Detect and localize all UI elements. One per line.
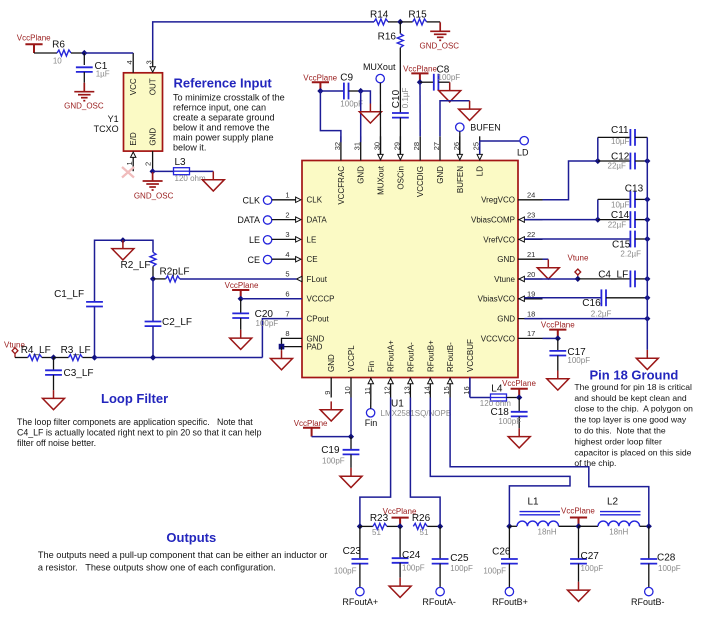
wire L3 to ground <box>190 170 214 172</box>
svg-text:10µF: 10µF <box>611 200 630 209</box>
pin 32 VCCFRAC <box>333 136 342 160</box>
wire pin 14 RFoutB+ routing <box>430 398 570 527</box>
svg-text:100pF: 100pF <box>322 457 345 466</box>
ground triangle (C9/pin31) <box>359 104 381 124</box>
resistor R15 <box>400 10 427 25</box>
pin 5 FLout <box>285 270 301 282</box>
wire pin 16 to L4 <box>470 378 491 398</box>
ground GND_OSC (Y1 pin2) <box>134 172 174 200</box>
op-amp U1 LMX2581 IC body <box>302 161 518 378</box>
svg-text:Fin: Fin <box>367 361 376 372</box>
svg-text:GND: GND <box>497 315 515 324</box>
capacitor C24 <box>392 526 425 577</box>
svg-text:C26: C26 <box>492 547 511 558</box>
power symbol VccPlane (C8) <box>403 64 437 82</box>
wire pin 12 RFoutA+ routing <box>360 398 391 527</box>
node junction C13/C14 bracket <box>595 217 601 223</box>
svg-text:C23: C23 <box>343 546 362 557</box>
node junction VccPlane/C8/pin28 <box>417 79 423 85</box>
pin 23 VbiasCOMP <box>518 210 543 222</box>
capacitor C25 <box>432 526 473 587</box>
svg-text:C13: C13 <box>625 184 644 195</box>
port CLK <box>242 195 271 205</box>
port MUXout <box>363 62 396 83</box>
svg-text:of the chip.: of the chip. <box>574 458 616 468</box>
resistor R14 <box>370 10 389 25</box>
svg-text:and should be kept clean and: and should be kept clean and <box>574 393 687 403</box>
svg-text:1: 1 <box>285 191 289 200</box>
resistor R2_LF <box>120 252 156 271</box>
power symbol VccPlane (C20) <box>225 281 259 299</box>
svg-text:capacitor is placed on this si: capacitor is placed on this side <box>574 447 691 457</box>
node junction C9/pin31 <box>358 88 364 94</box>
power symbol VccPlane (L1/L2) <box>561 506 595 526</box>
wire pin 17 to junction <box>543 337 558 339</box>
ground triangle (C24) <box>389 578 411 598</box>
pin 19 VbiasVCO <box>518 290 543 302</box>
svg-text:18nH: 18nH <box>538 528 557 537</box>
svg-text:The loop filter componets are: The loop filter componets are applicatio… <box>17 417 253 427</box>
svg-text:C1_LF: C1_LF <box>54 289 84 300</box>
power symbol Vtune <box>568 253 589 279</box>
node junction pin10/C19 <box>348 434 354 440</box>
ground triangle (L3) <box>202 171 224 191</box>
capacitor C1_LF <box>54 289 103 358</box>
capacitor C27 <box>570 526 603 582</box>
svg-text:to do this. Note that the: to do this. Note that the <box>574 426 665 436</box>
wire R2pLF to pin 5 FLout <box>180 278 297 280</box>
wire pin 21 GND to ground <box>543 258 549 260</box>
svg-text:VccPlane: VccPlane <box>303 73 337 82</box>
svg-text:RFoutA-: RFoutA- <box>406 342 415 372</box>
pin 12 RFoutA+ <box>383 378 394 398</box>
pin 29 OSCin <box>392 136 403 160</box>
pin 13 RFoutA- <box>402 378 413 398</box>
svg-text:2.2µF: 2.2µF <box>620 249 641 258</box>
svg-text:20: 20 <box>527 270 535 279</box>
port DATA <box>237 215 271 225</box>
svg-text:VccPlane: VccPlane <box>541 321 575 330</box>
svg-text:22µF: 22µF <box>608 221 627 230</box>
Y1 pin 4 VCC <box>125 53 134 73</box>
svg-text:OUT: OUT <box>149 78 158 95</box>
svg-text:BUFEN: BUFEN <box>456 166 465 193</box>
node junction RFoutA+/R23/C23 <box>357 523 363 529</box>
wire junction to Y1 pin 4 <box>84 52 133 54</box>
wire VccPlane to junction <box>312 436 351 438</box>
pin 4 CE <box>285 250 301 262</box>
svg-text:RFoutB+: RFoutB+ <box>426 340 435 372</box>
port LE <box>249 235 272 245</box>
wire pin 10 VCCPL down <box>350 398 352 437</box>
wire pin 24 VregVCO to C11/C12 <box>543 161 598 200</box>
svg-text:C19: C19 <box>321 445 340 456</box>
node junction Vtune/C4_LF <box>575 276 581 282</box>
svg-text:C11: C11 <box>611 125 629 136</box>
svg-text:FLout: FLout <box>307 275 328 284</box>
node junction R14/R15/R16 <box>397 19 403 25</box>
svg-text:To minimize crosstalk of the: To minimize crosstalk of the <box>173 92 285 102</box>
wire junction to pin 6 VCCCP <box>241 298 302 300</box>
pin 15 RFoutB- <box>442 378 453 398</box>
pin 21 GND <box>518 250 543 259</box>
ground triangle (loop filter top) <box>112 240 134 260</box>
svg-text:GND: GND <box>357 166 366 184</box>
svg-text:100pF: 100pF <box>450 564 473 573</box>
Y1 pin 1 E/D no-connect <box>122 152 136 178</box>
wire Y1 OUT to R14 <box>153 22 374 60</box>
node junction PAD (square) <box>279 344 285 350</box>
svg-text:a resistor. These outputs sh: a resistor. These outputs show one of ea… <box>38 563 276 573</box>
svg-text:C2_LF: C2_LF <box>162 317 192 328</box>
ground triangle (C3_LF) <box>43 390 65 410</box>
node junction VccPlane/C9 <box>317 88 323 94</box>
node junction bus/C15 <box>644 236 650 242</box>
heading Reference Input <box>174 76 273 91</box>
svg-text:U1: U1 <box>391 399 404 410</box>
svg-text:VccPlane: VccPlane <box>403 64 437 73</box>
svg-text:23: 23 <box>527 210 535 219</box>
node junction bus/C4_LF <box>644 276 650 282</box>
capacitor C16 with wire from pin 19 <box>524 289 647 318</box>
svg-text:close to the chip. A polygon: close to the chip. A polygon on <box>574 404 693 414</box>
svg-text:TCXO: TCXO <box>94 124 119 134</box>
svg-text:R6: R6 <box>52 40 65 51</box>
svg-text:DATA: DATA <box>307 216 328 225</box>
svg-text:VccPlane: VccPlane <box>225 281 259 290</box>
svg-text:0.1µF: 0.1µF <box>401 87 410 108</box>
inductor L2 <box>579 496 649 536</box>
ground GND_OSC (C1) <box>64 83 104 111</box>
svg-text:100pF: 100pF <box>658 564 681 573</box>
svg-text:GND: GND <box>436 166 445 184</box>
svg-text:24: 24 <box>527 191 535 200</box>
Y1 pin 2 GND <box>144 151 153 171</box>
wire pin 11 to Fin <box>370 398 372 409</box>
svg-text:refernce input, one can: refernce input, one can <box>173 102 266 112</box>
pin 30 MUXout <box>373 136 384 160</box>
port RFoutA+ <box>342 587 378 607</box>
wire bracket C11 <box>597 137 599 161</box>
wire power to R6 <box>34 52 57 54</box>
svg-text:17: 17 <box>527 329 535 338</box>
pin 6 VCCCP <box>285 290 289 299</box>
wire pin 18 GND to bus <box>524 318 647 320</box>
ground triangle (pin 27) <box>459 101 481 121</box>
note text loop filter <box>17 417 262 448</box>
capacitor C26 <box>483 526 517 587</box>
svg-text:VccPlane: VccPlane <box>17 34 51 43</box>
port RFoutB- <box>631 587 665 607</box>
svg-text:7: 7 <box>285 309 289 318</box>
svg-text:C28: C28 <box>657 552 676 563</box>
heading Loop Filter <box>101 391 168 406</box>
svg-text:Y1: Y1 <box>108 114 119 124</box>
pin 22 VrefVCO <box>518 230 543 242</box>
svg-text:18: 18 <box>527 309 535 318</box>
wire VccPlane junction to pin 32 <box>320 91 341 142</box>
svg-text:3: 3 <box>285 230 289 239</box>
svg-text:the top layer is one good way: the top layer is one good way <box>574 415 686 425</box>
svg-text:R26: R26 <box>412 513 431 524</box>
svg-text:The outputs need a pull-up com: The outputs need a pull-up component tha… <box>38 550 328 560</box>
heading Pin 18 Ground <box>590 368 679 383</box>
node junction C11/C12 bracket <box>595 158 601 164</box>
TCXO Y1 body <box>124 73 163 151</box>
wire R3_LF to junction <box>83 357 95 359</box>
svg-text:C27: C27 <box>581 551 600 562</box>
node junction R6/C1 <box>81 50 87 56</box>
capacitor C20 <box>232 299 278 330</box>
capacitor C4_LF <box>578 269 648 287</box>
wire LE to pin <box>272 238 296 240</box>
svg-text:22µF: 22µF <box>608 161 627 170</box>
port LD <box>517 137 529 158</box>
svg-text:R14: R14 <box>370 10 389 21</box>
svg-text:C4_LF is actually located righ: C4_LF is actually located right next to … <box>17 428 262 438</box>
svg-text:10: 10 <box>53 57 62 66</box>
svg-text:VrefVCO: VrefVCO <box>483 235 515 244</box>
svg-text:MUXout: MUXout <box>363 62 396 72</box>
capacitor C15 with wire from pin 22 <box>524 231 647 259</box>
node junction bus/C14 <box>644 217 650 223</box>
pin 9 GND <box>323 378 332 398</box>
svg-text:VCC: VCC <box>129 78 138 95</box>
node junction bus/C13 <box>644 196 650 202</box>
power symbol VccPlane (top-left) <box>17 34 51 53</box>
node junction VccPlane/C27 <box>575 523 581 529</box>
pin 10 VCCPL <box>343 378 352 398</box>
pin 27 GND <box>432 136 441 160</box>
svg-text:GND_OSC: GND_OSC <box>134 191 174 200</box>
pin 24 VregVCO <box>518 191 543 200</box>
svg-text:R15: R15 <box>408 10 427 21</box>
svg-text:CLK: CLK <box>307 196 323 205</box>
pin 14 RFoutB+ <box>422 378 433 398</box>
pin 28 VCCDIG <box>412 136 421 160</box>
wire pin 13 RFoutA- routing <box>410 398 440 527</box>
svg-text:create a separate ground: create a separate ground <box>173 112 275 122</box>
port BUFEN <box>456 123 501 133</box>
svg-text:5: 5 <box>285 270 289 279</box>
power symbol VccPlane (C19) <box>294 419 328 437</box>
pin 11 Fin <box>363 378 374 398</box>
svg-text:CE: CE <box>307 255 318 264</box>
svg-text:RFoutB+: RFoutB+ <box>492 597 528 607</box>
svg-text:21: 21 <box>527 250 535 259</box>
svg-text:L2: L2 <box>607 496 619 507</box>
wire PAD to ground <box>281 347 283 351</box>
svg-text:100pF: 100pF <box>498 417 521 426</box>
ground triangle (C27) <box>568 582 590 602</box>
ground triangle (PAD) <box>271 350 293 370</box>
svg-text:8: 8 <box>285 329 289 338</box>
svg-text:Vtune: Vtune <box>568 253 589 262</box>
svg-text:GND: GND <box>497 255 515 264</box>
capacitor C10 <box>391 87 410 117</box>
node junction C3_LF <box>50 354 56 360</box>
svg-text:L3: L3 <box>175 157 187 168</box>
note text outputs <box>38 550 328 572</box>
svg-text:below it and remove the: below it and remove the <box>173 122 270 132</box>
node junction bus/C12 <box>644 158 650 164</box>
svg-text:MUXout: MUXout <box>377 165 386 195</box>
capacitor C18 <box>491 398 528 429</box>
capacitor C17 <box>549 338 590 370</box>
svg-text:BUFEN: BUFEN <box>470 123 501 133</box>
svg-text:VCCDIG: VCCDIG <box>416 166 425 197</box>
svg-text:10µF: 10µF <box>611 137 630 146</box>
svg-text:CE: CE <box>247 255 260 265</box>
svg-text:VccPlane: VccPlane <box>294 419 328 428</box>
wire pin 27 to ground <box>440 101 470 137</box>
svg-text:C24: C24 <box>402 550 421 561</box>
svg-text:Outputs: Outputs <box>166 530 216 545</box>
svg-text:OSCin: OSCin <box>396 166 405 190</box>
power symbol VccPlane (C9) <box>303 73 337 91</box>
svg-text:R2pLF: R2pLF <box>159 266 189 277</box>
capacitor C2_LF <box>145 279 192 358</box>
capacitor C19 <box>321 437 359 468</box>
port RFoutB+ <box>492 587 528 607</box>
svg-text:main power supply plane: main power supply plane <box>173 132 274 142</box>
svg-text:R4_LF: R4_LF <box>21 345 51 356</box>
resistor R6 <box>52 40 71 66</box>
svg-text:51: 51 <box>420 528 429 537</box>
svg-text:100pF: 100pF <box>483 566 506 575</box>
svg-text:RFoutA+: RFoutA+ <box>342 597 378 607</box>
wire junction to pin 28 <box>419 82 421 136</box>
resistor R3_LF <box>54 345 91 361</box>
wire right bus vertical <box>646 137 648 350</box>
wire bracket C13 <box>597 199 599 219</box>
resistor R23 <box>360 513 400 537</box>
svg-text:GND: GND <box>327 354 336 372</box>
svg-text:VCCFRAC: VCCFRAC <box>337 166 346 205</box>
pin 20 Vtune <box>518 270 543 282</box>
ground triangle (C20) <box>230 330 252 350</box>
node junction R2_LF/R2pLF/C2_LF <box>150 276 156 282</box>
ground triangle (C19) <box>340 468 362 488</box>
wire R4_LF to junction <box>42 357 54 359</box>
node junction RFoutB+/L1/C26 <box>506 523 512 529</box>
svg-text:120 ohm: 120 ohm <box>175 174 206 183</box>
capacitor C14 <box>598 210 648 230</box>
svg-text:RFoutB-: RFoutB- <box>631 597 665 607</box>
svg-text:R16: R16 <box>378 31 397 42</box>
svg-text:GND: GND <box>149 128 158 146</box>
svg-text:100pF: 100pF <box>581 564 604 573</box>
svg-text:Vtune: Vtune <box>494 275 515 284</box>
capacitor C28 <box>640 526 680 587</box>
svg-text:VccPlane: VccPlane <box>502 379 536 388</box>
svg-text:DATA: DATA <box>237 215 260 225</box>
node junction bus/pin18 <box>644 316 650 322</box>
svg-text:filter off noise better.: filter off noise better. <box>17 438 96 448</box>
svg-text:1µF: 1µF <box>96 70 110 79</box>
svg-text:RFoutA-: RFoutA- <box>422 597 456 607</box>
pin 3 LE <box>285 230 301 242</box>
wire loop filter bottom rail <box>95 357 263 359</box>
power symbol VccPlane (pin 17) <box>541 321 575 339</box>
svg-text:RFoutB-: RFoutB- <box>446 342 455 372</box>
svg-text:Loop Filter: Loop Filter <box>101 391 168 406</box>
ground triangle (C18) <box>508 428 530 448</box>
svg-text:100pF: 100pF <box>402 563 425 572</box>
U1 part number value label <box>381 409 452 418</box>
wire DATA to pin <box>272 219 296 221</box>
wire R15 to ground <box>427 21 441 23</box>
ground triangle (C8) <box>439 82 461 102</box>
svg-text:C16: C16 <box>582 298 601 309</box>
node junction C1_LF bottom <box>91 354 97 360</box>
port CE <box>247 255 271 265</box>
node junction C2_LF bottom <box>150 354 156 360</box>
wire CPout riser to pin 7 <box>262 319 302 358</box>
pin 1 CLK <box>285 191 301 203</box>
node junction VccPlane/C24 <box>397 523 403 529</box>
wire R2_LF to junction <box>152 266 154 279</box>
svg-text:22: 22 <box>527 230 535 239</box>
Y1 pin 3 OUT <box>145 60 156 72</box>
wire R14 to junction <box>388 21 400 23</box>
svg-text:C3_LF: C3_LF <box>64 368 94 379</box>
wire CE to pin <box>272 258 296 260</box>
capacitor C11 <box>598 125 648 146</box>
svg-text:R3_LF: R3_LF <box>61 345 91 356</box>
Y1 TCXO value label <box>94 124 119 134</box>
svg-text:2: 2 <box>285 210 289 219</box>
svg-text:VCCBUF: VCCBUF <box>466 339 475 372</box>
svg-text:4: 4 <box>285 250 289 259</box>
pin 31 GND <box>353 136 362 160</box>
resistor R26 <box>412 513 440 537</box>
wire C10 to pin 29 OSCin <box>399 118 401 155</box>
node junction Y1 pin2 / L3 <box>150 168 156 174</box>
ground triangle (pin 9) <box>320 401 342 421</box>
svg-text:LD: LD <box>517 148 529 158</box>
svg-text:R2_LF: R2_LF <box>120 260 150 271</box>
ground triangle (right bus) <box>636 350 658 370</box>
svg-text:2.2µF: 2.2µF <box>591 310 612 319</box>
node junction L4/C18 <box>516 394 522 400</box>
port Fin <box>365 409 378 429</box>
resistor R16 <box>378 22 404 48</box>
svg-text:LD: LD <box>476 166 485 176</box>
pin 8 GND <box>285 329 289 338</box>
ground triangle (pin 21) <box>537 259 559 279</box>
wire loop filter top rail <box>95 240 154 301</box>
ground triangle (C17) <box>547 371 569 391</box>
capacitor C13 <box>598 184 648 210</box>
resistor R2pLF <box>153 266 190 282</box>
svg-text:Reference Input: Reference Input <box>174 76 273 91</box>
ground GND_OSC (R15) <box>420 22 460 50</box>
pin 18 GND <box>518 309 543 318</box>
node junction RFoutA-/R26/C25 <box>437 523 443 529</box>
capacitor C9 <box>320 72 363 108</box>
pin 25 LD <box>472 136 483 160</box>
svg-text:Pin 18 Ground: Pin 18 Ground <box>590 368 679 383</box>
svg-text:51: 51 <box>372 528 381 537</box>
capacitor C12 <box>598 151 648 170</box>
power symbol VccPlane (R23/R26) <box>383 507 417 527</box>
note text pin 18 ground <box>574 382 693 468</box>
wire junction to L3 <box>153 170 174 172</box>
svg-text:100pF: 100pF <box>567 356 590 365</box>
wire CLK to pin <box>272 199 296 201</box>
pin 26 BUFEN <box>452 136 463 160</box>
